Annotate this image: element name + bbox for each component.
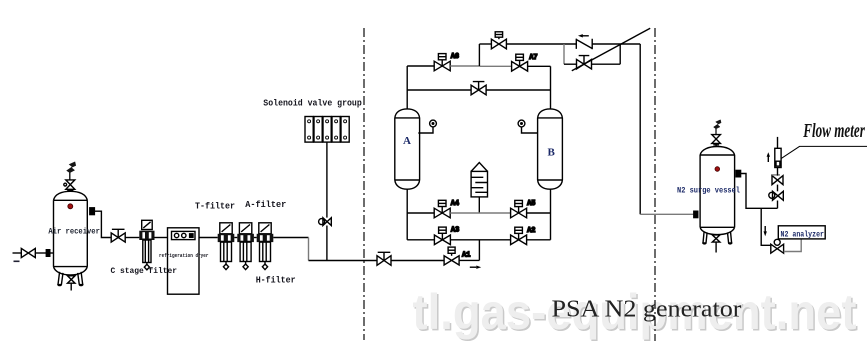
flow arrow [470, 266, 481, 269]
surge vessel gauge dot [715, 167, 720, 172]
valve A6 [434, 54, 450, 71]
svg-text:Solenoid valve group: Solenoid valve group [263, 99, 362, 109]
wire A7 to tower B [528, 65, 551, 67]
svg-text:A6: A6 [451, 53, 459, 61]
svg-text:A4: A4 [451, 200, 459, 208]
svg-text:Air receiver: Air receiver [48, 228, 100, 237]
wire dryer to T-filter [199, 237, 218, 239]
svg-text:A7: A7 [529, 54, 537, 62]
wire outlet to flow meter column [741, 174, 778, 209]
svg-text:A3: A3 [451, 227, 459, 235]
down arrow on sample line [764, 226, 767, 236]
solenoid valve group box [305, 117, 349, 143]
squiggle above surge safety valve [714, 120, 722, 135]
wire to vent valve [479, 43, 491, 45]
surge vessel inlet nozzle [694, 211, 698, 217]
bypass riser [619, 44, 621, 64]
surge vessel legs [702, 231, 732, 244]
row1 wire right [527, 212, 551, 214]
watermark tl.gas-equipment.net [413, 284, 859, 342]
arrow above check valve [578, 34, 589, 37]
wire sample valve to analyzer [784, 239, 802, 252]
product drop pipe [639, 44, 641, 214]
inlet arrow dash [14, 260, 20, 262]
upper valve [772, 175, 783, 185]
feed riser [478, 240, 480, 261]
bypass drop left [563, 44, 565, 64]
row2 wire middle [450, 239, 510, 241]
surge vessel safety valve [712, 135, 721, 147]
air receiver drain valve [68, 276, 76, 291]
flow meter [775, 148, 781, 167]
equalization cross wire [407, 89, 471, 91]
surge vessel outlet nozzle [736, 170, 741, 176]
inlet valve [21, 248, 35, 257]
riser junction to vent line [478, 44, 480, 66]
tower B top stem [550, 66, 552, 109]
wire solenoid box down [326, 142, 328, 218]
equalization wire right [486, 89, 550, 91]
wire feed header [309, 260, 378, 262]
N2 analyzer box [778, 226, 825, 239]
wire valve to flow meter [777, 168, 779, 176]
valve A2 [511, 227, 527, 244]
tower B gauge [518, 120, 538, 133]
bypass wire to valve [564, 63, 577, 65]
vent diagonal slash [572, 28, 650, 71]
C stage filter [139, 220, 154, 270]
row2 wire left [407, 239, 434, 241]
surge vessel drain valve [712, 235, 720, 253]
valve A3 [434, 227, 450, 245]
leader line from Flow meter text [781, 146, 867, 158]
wire to upper valve [777, 185, 779, 192]
valve A5 [511, 200, 527, 217]
svg-text:C stage filter: C stage filter [111, 266, 178, 276]
relief squiggle above safety valve [67, 162, 76, 180]
product wire to surge vessel [640, 213, 694, 215]
wire to valve A1 [391, 260, 444, 262]
air receiver tank body [54, 191, 88, 275]
wire junction to A7 [479, 65, 511, 67]
row1 wire left [407, 212, 434, 214]
battery limit dash-dot right [654, 28, 656, 341]
air receiver left nozzle [46, 250, 53, 257]
wire A stem to valve A6 [407, 65, 434, 67]
wire valve to C filter [125, 237, 139, 239]
air receiver legs [57, 272, 83, 286]
solenoid pilot valve [319, 218, 332, 226]
svg-text:A2: A2 [527, 227, 535, 235]
valve A4 [434, 200, 450, 218]
air receiver right nozzle [90, 208, 95, 215]
wire vent valve to check valve [506, 43, 576, 45]
svg-text:T-filter: T-filter [195, 202, 235, 212]
svg-text:A5: A5 [527, 200, 535, 208]
tower B bottom stem [550, 189, 552, 240]
svg-text:A1: A1 [462, 252, 470, 260]
feed manual valve [377, 252, 391, 265]
svg-text:N2 surge vessel: N2 surge vessel [677, 188, 740, 196]
wire C filter to dryer [155, 237, 168, 239]
svg-text:N2 analyzer: N2 analyzer [781, 232, 825, 240]
N2 surge vessel body [700, 147, 735, 235]
wire check valve to product corner [592, 43, 640, 45]
A-filter [237, 223, 254, 270]
svg-text:A: A [403, 135, 411, 147]
safety valve on air receiver [64, 180, 75, 191]
svg-text:A-filter: A-filter [245, 200, 286, 210]
check valve [576, 39, 592, 50]
wire corner down [308, 238, 310, 261]
sample valve [771, 239, 784, 253]
svg-text:PSA N2 generator: PSA N2 generator [552, 296, 742, 323]
tower A [395, 109, 420, 189]
strainer [471, 163, 487, 214]
svg-text:H-filter: H-filter [256, 276, 296, 286]
wire T to A filter [234, 237, 237, 239]
wire nozzle to C filter [94, 211, 111, 237]
valve before C stage filter [111, 229, 125, 242]
globe valve lower [769, 191, 784, 200]
battery limit dash-dot left [363, 28, 365, 340]
bypass manual valve [577, 56, 592, 69]
vent valve with actuator [491, 32, 506, 49]
bypass wire to riser [592, 63, 621, 65]
air receiver pressure gauge dot [68, 204, 73, 209]
wire flow meter column up [777, 201, 779, 209]
row2 wire right [527, 239, 551, 241]
tower A gauge [418, 120, 436, 133]
wire A to H filter [254, 237, 257, 239]
wire H filter to corner [273, 237, 308, 239]
tower A bottom stem [406, 189, 408, 240]
equalization manual valve [471, 82, 486, 95]
valve A7 [512, 54, 528, 71]
tower A top stem [406, 66, 408, 109]
H-filter [257, 223, 274, 270]
sample line drop [761, 208, 771, 245]
tower B [538, 109, 563, 189]
up arrow beside flow meter [767, 152, 770, 162]
T-filter [218, 223, 235, 270]
flow meter vent stem [777, 137, 779, 148]
wire pilot valve to header [326, 226, 328, 261]
row1 wire middle [450, 212, 510, 214]
wire A6 to junction [450, 65, 479, 67]
wire valve to nozzle [35, 252, 46, 254]
svg-text:B: B [548, 147, 556, 159]
svg-text:Flow meter: Flow meter [803, 120, 865, 142]
valve A1 [444, 247, 459, 265]
wire A1 to riser [459, 259, 479, 261]
inlet wire [13, 252, 22, 254]
refrigeration dryer box [168, 228, 200, 294]
svg-text:refrigeration dryer: refrigeration dryer [159, 253, 209, 259]
